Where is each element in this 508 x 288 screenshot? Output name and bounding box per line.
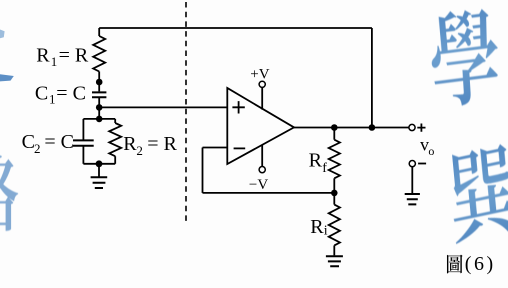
op-amp - input marker [234,147,246,149]
wire feedback to - input [203,147,228,149]
terminal -v circle [259,167,265,173]
wire Ri bottom lead [333,245,335,255]
wire R1 bottom to C1 [98,72,100,92]
capacitor C1 [92,92,106,97]
wire R2 bottom lead [114,156,116,164]
wire node B horizontal [83,118,115,120]
ground left [91,177,108,188]
wire R2 top lead [114,119,116,123]
resistor Ri [329,205,340,246]
wire Rf bottom lead [333,178,335,193]
wire bottom joining C2 R2 [83,163,115,165]
svg-text:+V: +V [250,66,269,82]
wire top feedback [99,27,372,29]
wire C2 top lead [82,119,84,140]
svg-text:1: 1 [49,92,56,107]
op-amp U1 triangle [227,88,294,164]
wire ground stub left [98,164,100,177]
wire lower terminal to ground [411,167,413,193]
svg-text:R: R [36,44,50,66]
ground under Ri [326,256,343,266]
dashed partition line [185,2,187,224]
terminal vo+ circle [409,124,415,130]
svg-text:R: R [123,133,137,155]
junction node output at Rf [331,124,338,131]
junction node A [96,104,103,111]
svg-text:= C: = C [56,82,86,104]
wire node A to op-amp + input [99,106,227,108]
resistor Rf [329,140,340,179]
watermark character fragment (road) left edge [0,153,18,231]
wire -v stub [261,145,263,167]
junction node Rf-Ri [331,190,338,197]
wire output [294,127,409,129]
svg-text:1: 1 [51,54,58,69]
capacitor C2 [73,140,94,145]
terminal +v circle [259,81,265,87]
watermark character right [448,142,508,244]
plus sign at output terminal [417,124,425,132]
wire R1 top lead [98,28,100,36]
wire feedback vertical [202,148,204,193]
svg-text:C: C [22,131,35,153]
svg-text:−V: −V [249,177,268,193]
svg-text:= C: = C [44,131,74,153]
svg-text:(6): (6) [465,253,496,275]
svg-text:i: i [324,224,328,239]
figure caption glyph [447,255,463,274]
resistor R1 [93,36,105,72]
op-amp + input marker [232,101,244,113]
resistor R2 [109,123,121,156]
terminal vo- circle [409,161,415,167]
watermark character top-right [429,6,501,109]
junction node B [96,116,103,123]
wire Rf top lead [333,128,335,140]
wire C2 bottom lead [82,146,84,164]
wire feedback bottom [203,192,335,194]
minus sign at lower output terminal [418,163,426,165]
wire Ri top lead [333,193,335,205]
svg-text:R: R [310,216,324,238]
junction node output at feedback [369,124,376,131]
wire +v stub [261,88,263,110]
svg-text:= R: = R [147,133,177,155]
junction node under R1 [96,79,103,86]
svg-text:2: 2 [34,141,41,156]
watermark fragment left wedge [0,74,14,81]
svg-text:2: 2 [136,143,143,158]
watermark fragment top-left small [0,30,5,39]
wire right vertical of top feedback [371,28,373,128]
wire C1 bottom through node A to node B [98,97,100,119]
svg-text:R: R [309,149,323,171]
svg-text:f: f [322,161,327,176]
svg-text:C: C [35,82,48,104]
ground right [405,194,420,204]
junction node ground left [96,160,103,167]
svg-text:= R: = R [59,44,89,66]
svg-text:o: o [428,144,434,158]
